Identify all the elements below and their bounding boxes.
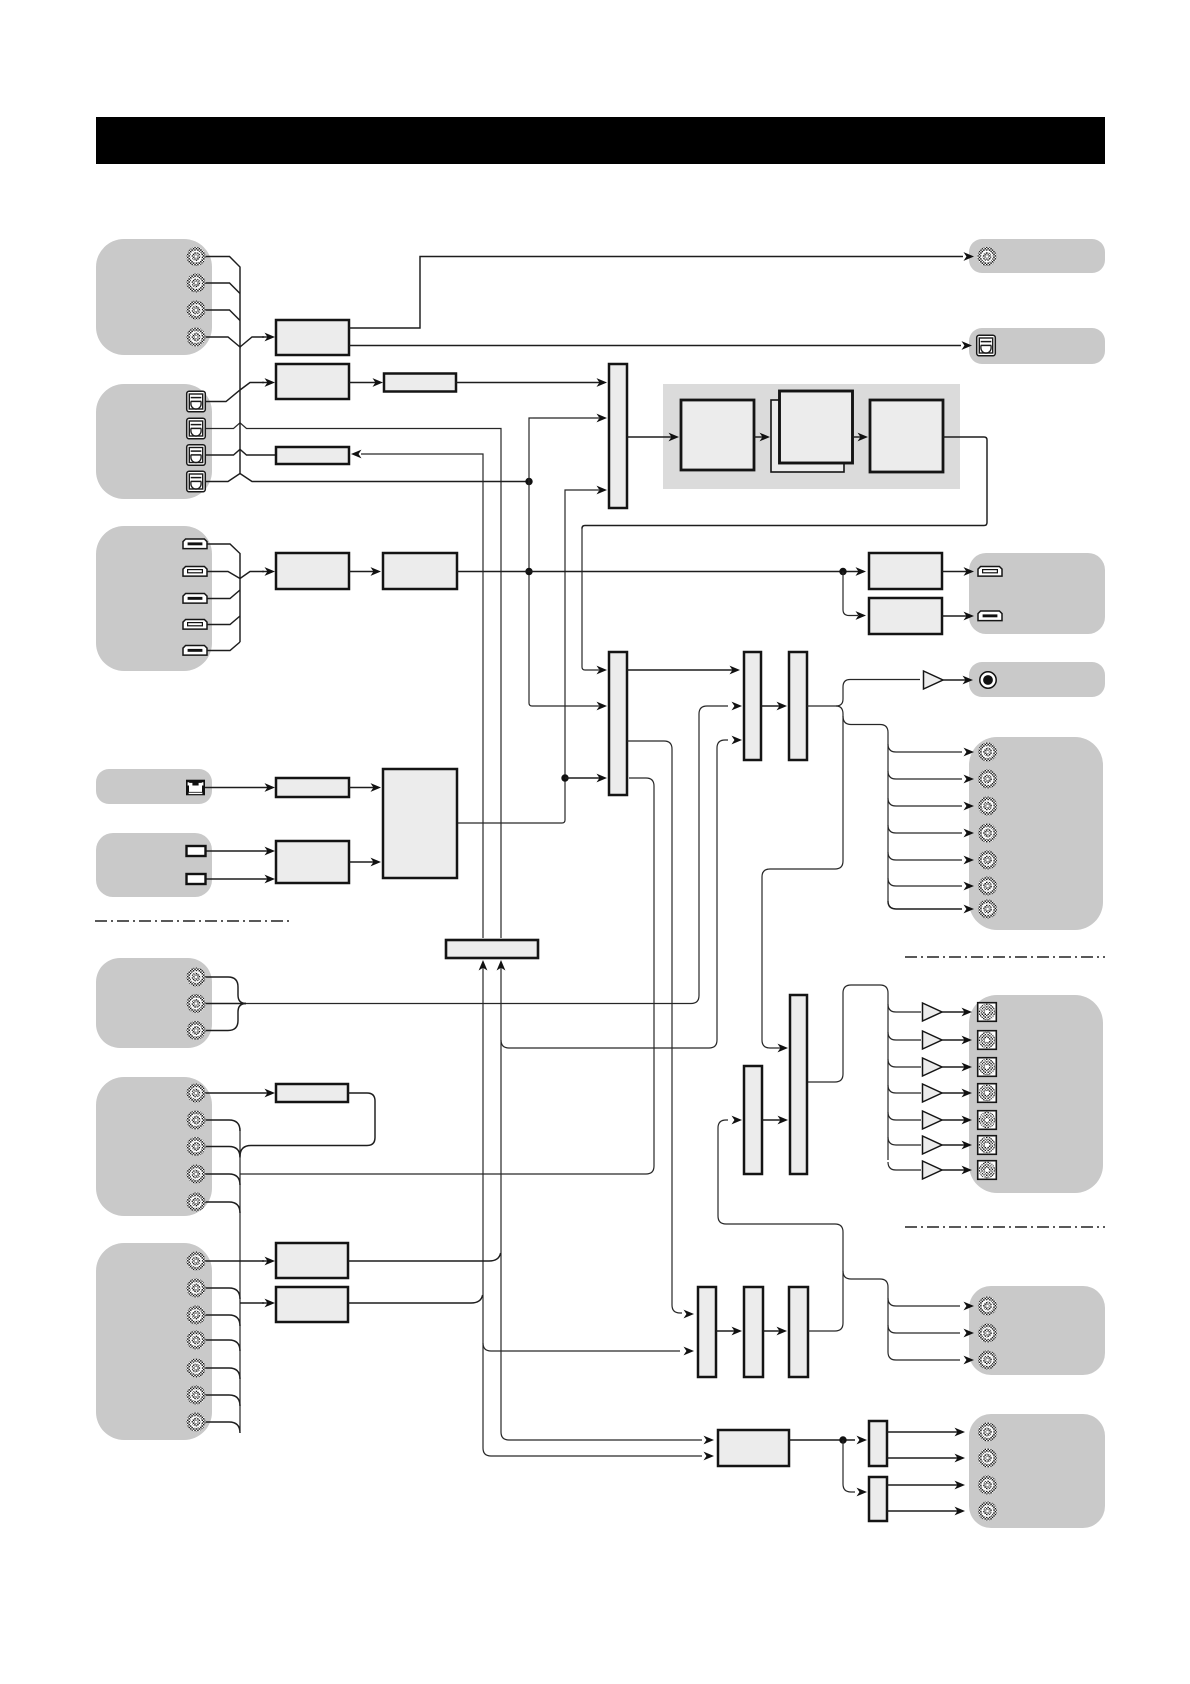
wire speaker branch 7 [888, 1162, 921, 1170]
wire pre out branch 3 [888, 798, 962, 806]
arrowhead optical out [962, 341, 973, 350]
block: selector C [744, 652, 761, 760]
block: mixer B1 [609, 652, 627, 795]
arrowhead into zone2 block 2 [704, 1452, 715, 1461]
HDMI bus [239, 562, 241, 642]
panel: speaker out [969, 995, 1103, 1193]
wire phones branch [836, 680, 920, 707]
wire pre out branch 7 [888, 901, 962, 909]
block: zone selector Z1 [698, 1287, 716, 1377]
wire HDMI out branch [843, 572, 858, 616]
wire coax in 2 to bus [205, 283, 240, 294]
wire analog in 3 [205, 1004, 246, 1031]
wire arrow into comp block 2 [262, 1299, 275, 1308]
wire net block to main dsp [349, 783, 381, 792]
RCA jack comp in jack 3 [187, 1306, 206, 1325]
arrowhead x501 branch into selector C [732, 736, 743, 745]
wire to HDMI out jack 2 [942, 612, 974, 621]
wire AV in 3 to bus [205, 1147, 240, 1158]
wire AV in 5 to bus [205, 1202, 240, 1213]
wire speaker branch 4 [888, 1085, 921, 1093]
block: comp video block 1 [276, 1243, 348, 1278]
arrowhead into mixer B1 mid [597, 702, 608, 711]
RCA jack pre out jack 3 [978, 797, 997, 816]
wire HDMI rx to HDMI proc [349, 567, 381, 576]
wire arrow into decoder block [262, 378, 275, 387]
wire HDMI in 3 to bus [207, 590, 240, 599]
RCA jack zone line jack 1 [978, 1297, 997, 1316]
optical jack optical in jack 1 [187, 391, 206, 412]
junction digital node B [525, 568, 532, 575]
RCA jack zone2 jack 2 [978, 1449, 997, 1468]
wire arrow into DIR block [262, 333, 275, 342]
wire comp in 7 to bus [205, 1422, 240, 1433]
wire arrow into HDMI rx [262, 567, 275, 576]
jack phones jack [980, 672, 996, 688]
wire speaker branch 5 [888, 1112, 921, 1120]
RCA jack comp in jack 6 [187, 1386, 206, 1405]
block: zone volume Z3 [789, 1287, 808, 1377]
wire analog merged to selector pair [246, 706, 728, 1004]
wire big box to mixer B1 [565, 774, 607, 783]
panel: optical output [969, 328, 1105, 364]
RCA jack coax in jack 3 [187, 301, 206, 320]
wire HDMI in 5 to bus [207, 642, 240, 651]
panel: coax output [969, 239, 1105, 273]
wire AV bus to mixer riser [240, 778, 654, 1174]
panel: optical inputs [96, 384, 212, 499]
amplifier speaker amp 1 [923, 1003, 943, 1021]
panel: zone line out [969, 1286, 1105, 1375]
RCA jack pre out jack 7 [978, 900, 997, 919]
arrowhead analog into selector C [732, 702, 743, 711]
wire arrow into comp block 1 [262, 1257, 275, 1266]
wire amp 7 to terminal [942, 1166, 972, 1175]
RCA jack comp in jack 2 [187, 1279, 206, 1298]
wire converter to selector A [455, 378, 607, 387]
wire amp 2 to terminal [942, 1036, 972, 1045]
wire comp in 2 to bus [205, 1288, 240, 1299]
wire comp in 3 to bus [205, 1315, 240, 1326]
wire selector C to volume D [761, 702, 787, 711]
RCA jack zone2 jack 3 [978, 1476, 997, 1495]
wire preout branch [843, 716, 888, 901]
arrowhead x483 into Z1 [684, 1347, 695, 1356]
wire speaker branch 6 [888, 1137, 921, 1145]
arrowhead main into power amp matrix [778, 1044, 789, 1053]
block: zone amp selector [744, 1066, 762, 1174]
arrowhead x483 into bus interface [479, 960, 488, 971]
wire usb port 1 to usb block [205, 847, 275, 856]
wire comp block 2 out [348, 1295, 483, 1303]
wire speaker branch 1 [888, 1004, 921, 1012]
arrowhead into zone2 block 1 [704, 1436, 715, 1445]
wire speaker loop [807, 985, 888, 1160]
RCA jack coax in jack 4 [187, 328, 206, 347]
amplifier speaker amp 7 [923, 1161, 943, 1179]
panel: analog audio inputs [96, 958, 212, 1048]
digital bus end [239, 390, 241, 474]
speaker terminal speaker terminal 2 [978, 1031, 997, 1050]
port usb jack 1 [187, 846, 206, 856]
arrowhead into zone2 driver 2 [857, 1488, 868, 1497]
wire zone amp sel to power amp matrix [762, 1116, 788, 1125]
title bar [96, 117, 1105, 164]
wire phones amp to jack [943, 676, 973, 685]
junction digital node A [525, 478, 532, 485]
junction zone2 node [839, 1436, 846, 1443]
wire mixer B1 to selector C [627, 666, 740, 675]
speaker terminal speaker terminal 4 [978, 1084, 997, 1103]
RCA jack pre out jack 1 [978, 743, 997, 762]
block: decoder [276, 364, 349, 399]
RCA jack AV in jack 5 [187, 1193, 206, 1212]
panel: digital coax inputs [96, 239, 212, 355]
panel: HDMI outputs [969, 553, 1105, 634]
speaker terminal speaker terminal 6 [978, 1136, 997, 1155]
panel: phones output [969, 662, 1105, 697]
arrowhead pre out 2 [964, 775, 975, 784]
wire DSP return riser [582, 528, 599, 670]
block: network block [276, 778, 349, 797]
panel: USB [96, 833, 212, 897]
wire usb port 2 to usb block [205, 875, 275, 884]
block: zone2 driver 2 [869, 1477, 887, 1521]
wire DSP1 to DSP2 [754, 433, 770, 442]
RCA jack comp in jack 1 [187, 1252, 206, 1271]
RCA jack zone2 jack 1 [978, 1423, 997, 1442]
wire video block 1 return [240, 1093, 375, 1157]
arrowhead pre out 5 [964, 856, 975, 865]
block: feedback block [276, 447, 349, 464]
wire speaker branch 3 [888, 1059, 921, 1067]
optical jack optical in jack 3 [187, 445, 206, 466]
arrowhead pre out 6 [964, 882, 975, 891]
network port network jack [186, 780, 205, 796]
block: video block 1 [276, 1084, 348, 1102]
amplifier speaker amp 5 [923, 1111, 943, 1129]
wire HDMI in 4 to bus [207, 616, 240, 625]
arrowhead x501 into bus interface [497, 960, 506, 971]
port usb jack 2 [187, 874, 206, 884]
block: converter small [384, 374, 456, 392]
speaker terminal speaker terminal 7 [978, 1161, 997, 1180]
amplifier phones amp [924, 671, 944, 689]
wire optical in 1 merge [205, 383, 264, 402]
RCA jack zone line jack 3 [978, 1351, 997, 1370]
arrowhead into selector A low [597, 486, 608, 495]
wire pre out branch 1 [888, 744, 962, 752]
wire HDMI in 2 merge [207, 572, 264, 579]
wire x501 to zone2 block [501, 1432, 702, 1440]
wire zone line branch 2 [888, 1325, 960, 1333]
separator line right upper [905, 956, 1105, 958]
wire decoder to converter [349, 378, 383, 387]
block: zone selector Z2 [744, 1287, 763, 1377]
block: DSP block 2 front [780, 391, 853, 463]
wire DSP2 to DSP3 [853, 433, 868, 442]
panel: zone 2 out [969, 1414, 1105, 1528]
RCA jack zone line jack 2 [978, 1324, 997, 1343]
RCA jack comp in jack 5 [187, 1359, 206, 1378]
wire selector A to DSP1 [627, 433, 679, 442]
wire DIR out bottom to optical output [349, 345, 961, 347]
RCA jack AV in jack 2 [187, 1111, 206, 1130]
separator line left [95, 920, 292, 922]
RCA jack pre out jack 5 [978, 851, 997, 870]
wire comp in 6 to bus [205, 1395, 240, 1406]
optical jack optical out jack [977, 335, 996, 356]
block: main dsp [383, 769, 457, 878]
HDMI connector HDMI in 2 [183, 567, 207, 577]
block: input selector A [609, 364, 627, 508]
block: digital interface [276, 320, 349, 355]
RCA jack analog in jack 3 [187, 1021, 206, 1040]
wire speaker branch 2 [888, 1032, 921, 1040]
arrowhead into selector A mid [597, 414, 608, 423]
HDMI connector HDMI in 3 [183, 594, 207, 604]
amplifier speaker amp 3 [923, 1058, 943, 1076]
HDMI connector HDMI in 4 [183, 620, 207, 630]
arrowhead into feedback block [351, 450, 362, 459]
RCA jack comp in jack 7 [187, 1413, 206, 1432]
RCA jack pre out jack 6 [978, 877, 997, 896]
wire volume down path [762, 706, 843, 1048]
HDMI connector HDMI in 5 [183, 646, 207, 656]
wire comp in 1 merge [205, 1260, 264, 1262]
wire comp in 4 to bus [205, 1340, 240, 1351]
wire x483 to zone2 block [483, 1448, 702, 1456]
block: DSP block 2 back [771, 400, 844, 472]
wire HDMI proc out [457, 571, 864, 573]
panel: network [96, 769, 212, 804]
wire x483 branch to Z1 [483, 1343, 680, 1351]
arrowhead pre out 4 [964, 829, 975, 838]
wire stub selector A mid [533, 417, 599, 419]
wire pre out branch 4 [888, 825, 962, 833]
block: HDMI out block 1 [869, 553, 942, 589]
wire analog in 2 [205, 1003, 246, 1005]
wire amp 4 to terminal [942, 1089, 972, 1098]
speaker terminal speaker terminal 5 [978, 1111, 997, 1130]
block: zone2 block [718, 1430, 789, 1466]
speaker terminal speaker terminal 3 [978, 1058, 997, 1077]
RCA jack comp in jack 4 [187, 1331, 206, 1350]
wire volume out node [807, 705, 836, 707]
digital bus lower [239, 347, 241, 390]
separator line right lower [905, 1226, 1105, 1228]
arrowhead pre out 1 [964, 748, 975, 757]
DSP group background [663, 384, 960, 489]
wire pre out branch 6 [888, 878, 962, 886]
arrowhead zone line 3 [964, 1356, 975, 1365]
RCA jack zone2 jack 4 [978, 1502, 997, 1521]
amplifier speaker amp 2 [923, 1031, 943, 1049]
wire AV in 4 to bus [205, 1174, 240, 1185]
junction node big box out [561, 774, 568, 781]
wire usb-dsp riser x565 [457, 490, 599, 823]
block: volume D [789, 652, 807, 760]
wire amp 1 to terminal [942, 1008, 972, 1017]
RCA jack analog in jack 1 [187, 968, 206, 987]
arrowhead DSP return into mixer B1 [597, 666, 608, 675]
wire comp bus tap 2 [240, 1302, 264, 1304]
wire amp 5 to terminal [942, 1116, 972, 1125]
wire AV in 1 to video block [205, 1089, 275, 1098]
wire usb block to main dsp [349, 858, 381, 867]
block: power amp matrix [790, 995, 807, 1174]
block: HDMI receiver [276, 553, 349, 589]
wire zone2 branch down [843, 1440, 855, 1492]
block: DSP block 1 [681, 400, 754, 470]
HDMI connector HDMI out 1 [978, 567, 1002, 577]
block: comp video block 2 [276, 1287, 348, 1322]
wire analog in 1 [205, 977, 246, 1004]
arrowhead zone into Z1 [684, 1310, 695, 1319]
arrowhead into HDMI out block 1 [856, 567, 867, 576]
wire Z2 to Z3 [763, 1327, 787, 1336]
wire pre out branch 2 [888, 771, 962, 779]
wire x501 branch to selector C [501, 740, 728, 1048]
panel: AV inputs [96, 1077, 212, 1216]
riser x501 lower [500, 966, 502, 1432]
RCA jack AV in jack 3 [187, 1137, 206, 1156]
wire AV in 2 to bus [205, 1120, 240, 1131]
wire zone2 out 2 [887, 1454, 965, 1463]
wire DSP return loop [582, 437, 987, 529]
wire zone line branch 3 [888, 1352, 960, 1360]
wire coax in 4 merge [205, 337, 264, 347]
wire optical in 3 hop [205, 449, 275, 455]
riser x483 upper [361, 454, 483, 938]
AV bus [239, 1128, 241, 1431]
block: DSP block 3 [870, 400, 943, 472]
wire coax in 3 to bus [205, 310, 240, 321]
block: zone2 driver 1 [869, 1421, 887, 1466]
wire coax in 1 to bus [205, 257, 240, 339]
arrowhead zone line 1 [964, 1302, 975, 1311]
arrowhead zone loop into zone amp selector [732, 1116, 743, 1125]
wire to HDMI out jack 1 [942, 567, 974, 576]
wire amp 6 to terminal [942, 1141, 972, 1150]
arrowhead into zone2 driver 1 [857, 1436, 868, 1445]
wire optical in 2 hop [205, 423, 501, 938]
wire zone2 out 4 [887, 1507, 965, 1516]
block: HDMI processor [383, 553, 457, 589]
wire zone2 out [789, 1439, 855, 1441]
speaker terminal speaker terminal 1 [978, 1003, 997, 1022]
arrowhead zone line 2 [964, 1329, 975, 1338]
wire pre out branch 5 [888, 852, 962, 860]
wire amp 3 to terminal [942, 1063, 972, 1072]
block: usb block [276, 841, 349, 883]
panel: HDMI inputs [96, 526, 212, 671]
riser x483 lower [482, 966, 484, 1448]
wire network port to net block [205, 783, 275, 792]
wire optical in 4 merge [205, 474, 527, 482]
arrowhead pre out 3 [964, 802, 975, 811]
HDMI connector HDMI out 2 [978, 611, 1002, 621]
amplifier speaker amp 6 [923, 1136, 943, 1154]
RCA jack AV in jack 1 [187, 1084, 206, 1103]
RCA jack analog in jack 2 [187, 994, 206, 1013]
arrowhead pre out 7 [964, 905, 975, 914]
wire mixer B1 zone branch [627, 741, 682, 1313]
RCA jack coax out jack [978, 247, 997, 266]
RCA jack AV in jack 4 [187, 1165, 206, 1184]
wire comp in 5 to bus [205, 1368, 240, 1379]
wire bus riser x529 [529, 418, 599, 706]
panel: pre out [969, 737, 1103, 930]
RCA jack coax in jack 2 [187, 274, 206, 293]
wire zone line branch 1 [888, 1298, 960, 1306]
wire zone2 out 3 [887, 1481, 965, 1490]
junction HDMI node [839, 568, 846, 575]
arrowhead into HDMI out block 2 [856, 611, 867, 620]
HDMI connector HDMI in 1 [183, 539, 207, 549]
wire DIR out top to coax output [349, 257, 963, 329]
wire zone loop up [718, 1120, 843, 1331]
wire HDMI in 1 to bus [207, 544, 240, 562]
RCA jack coax in jack 1 [187, 247, 206, 266]
wire zone2 out 1 [887, 1428, 965, 1437]
block: HDMI out block 2 [869, 598, 942, 634]
block: bus interface [446, 940, 538, 958]
RCA jack pre out jack 2 [978, 770, 997, 789]
panel: component video inputs [96, 1243, 212, 1440]
wire zone lineout branch [843, 1271, 888, 1352]
optical jack optical in jack 4 [187, 471, 206, 492]
arrowhead coax out [964, 252, 975, 261]
wire Z1 to Z2 [716, 1327, 742, 1336]
RCA jack pre out jack 4 [978, 824, 997, 843]
optical jack optical in jack 2 [187, 418, 206, 439]
amplifier speaker amp 4 [923, 1084, 943, 1102]
wire comp block 1 out [348, 1253, 501, 1261]
